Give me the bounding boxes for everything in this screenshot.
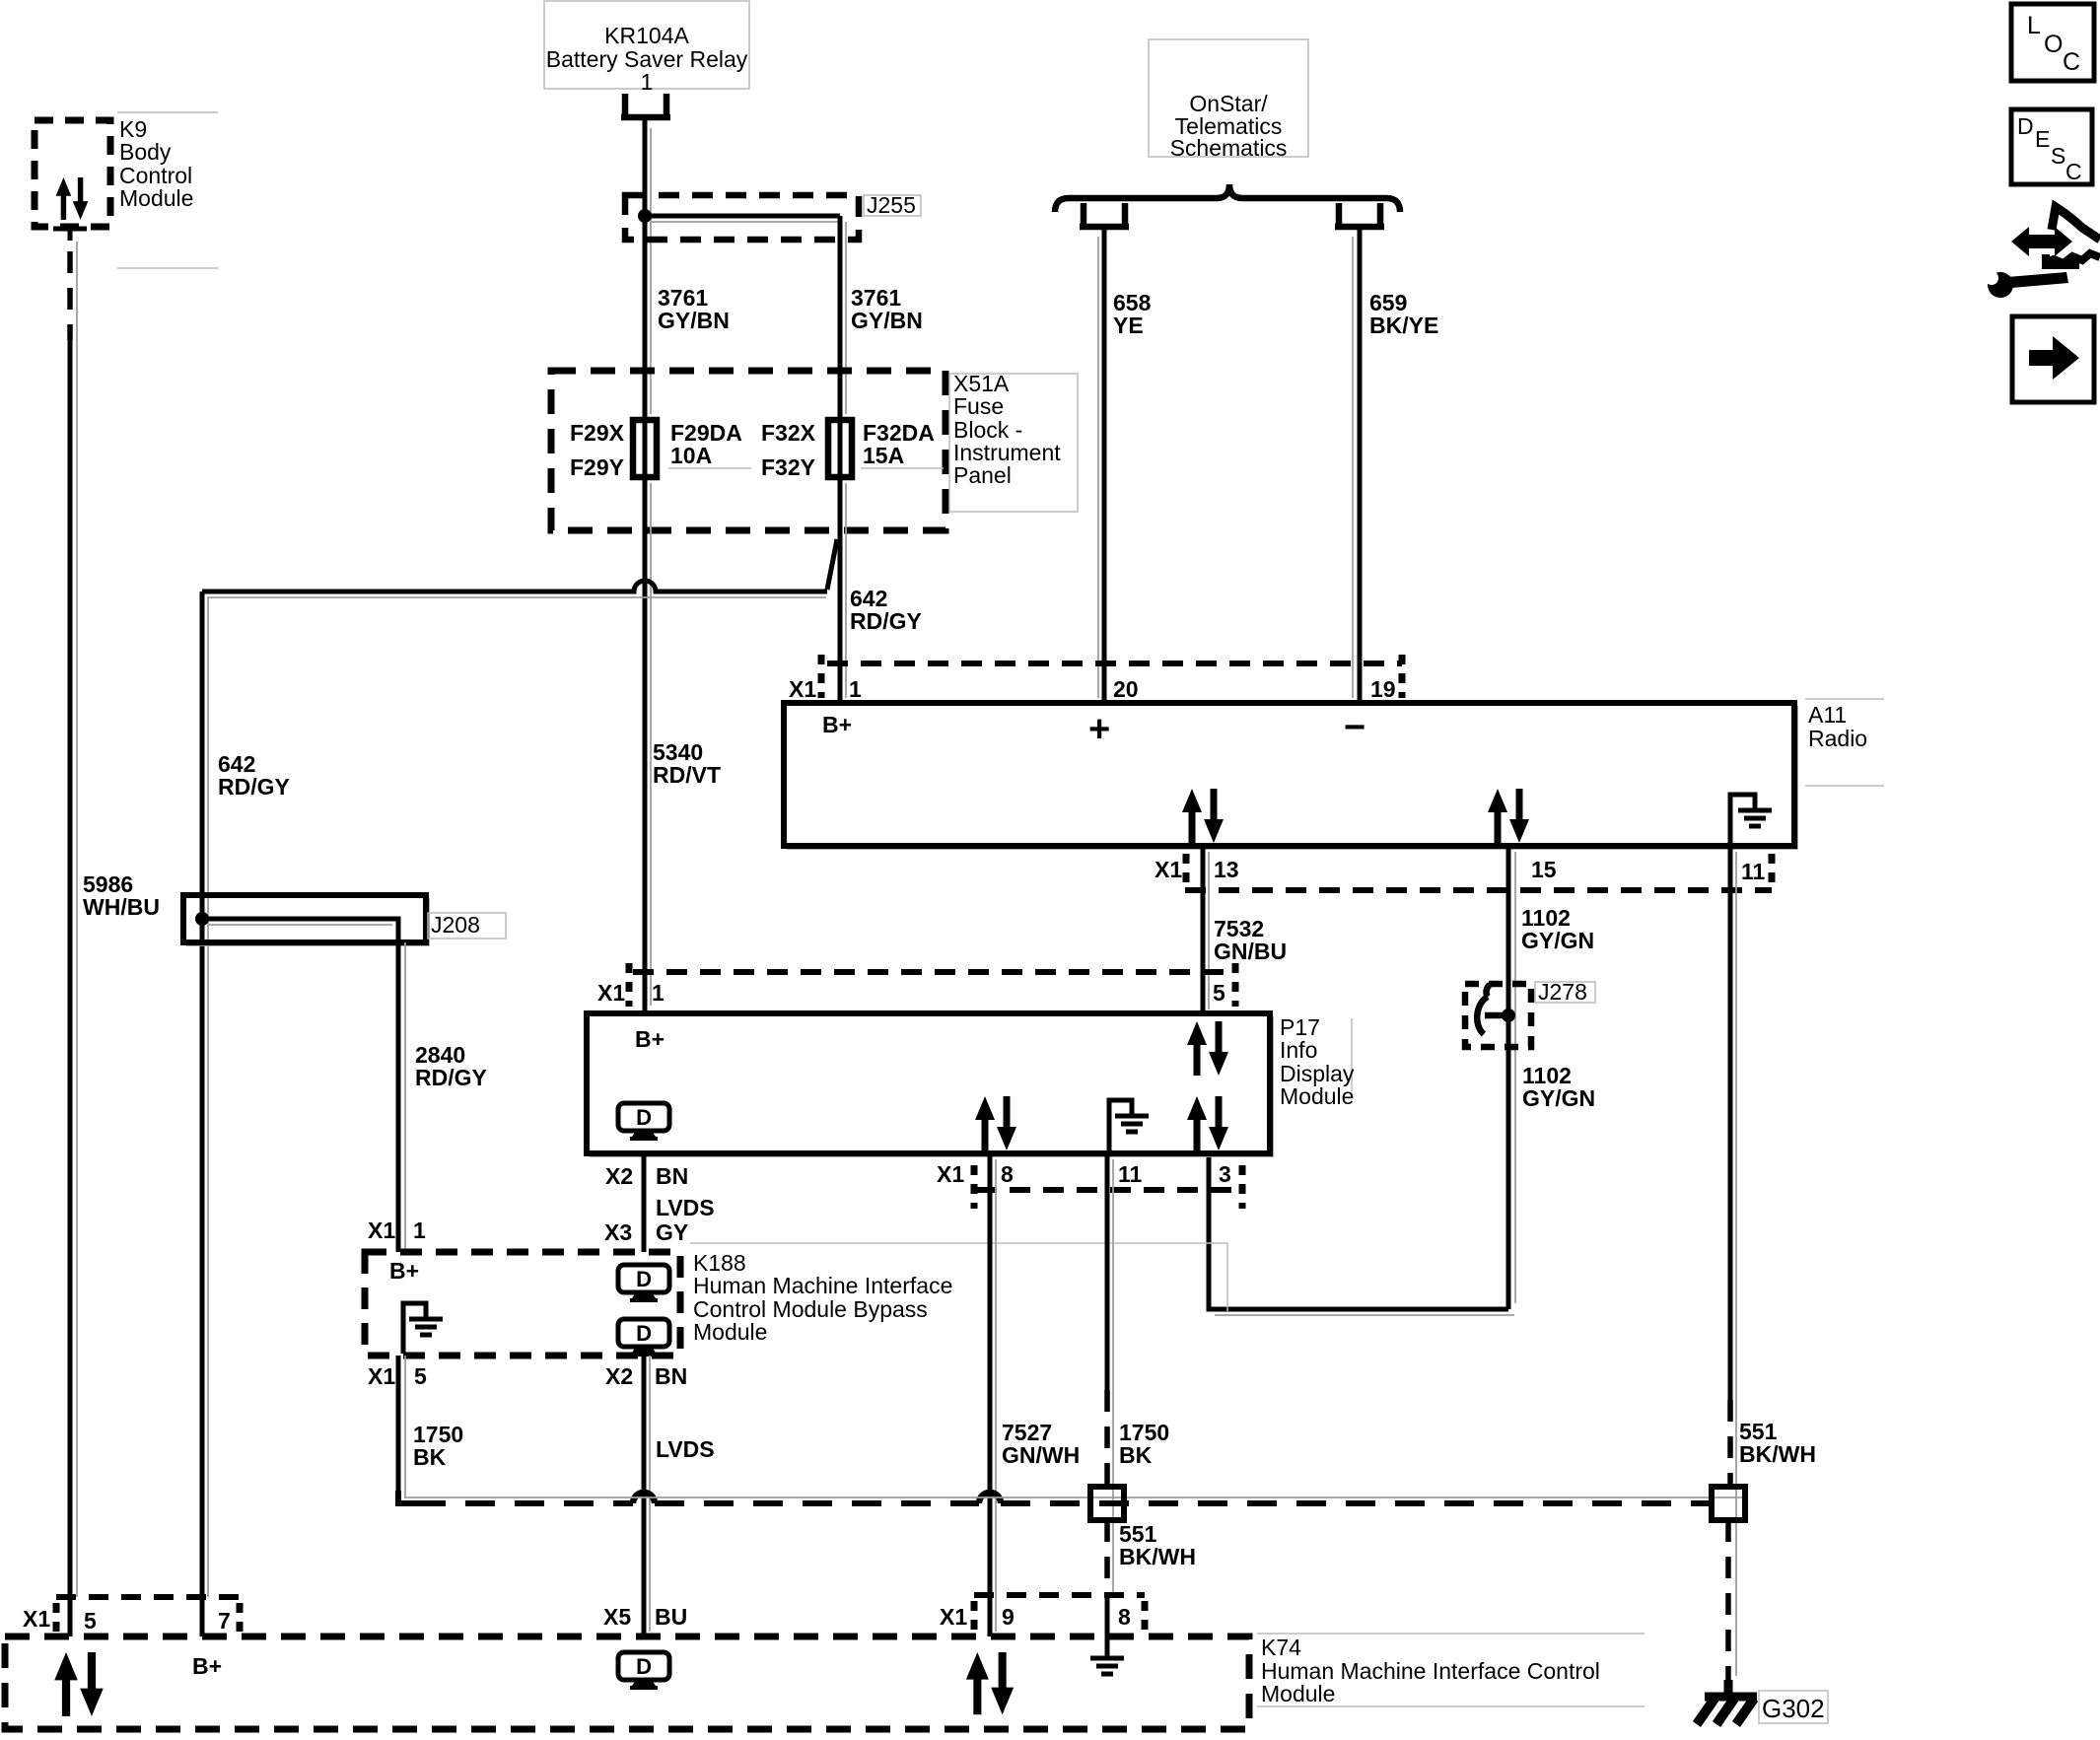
wire 7527 GN/WH from P17 pin 8 to K74 pin 9 — [988, 1153, 993, 1636]
svg-text:GY/GN: GY/GN — [1521, 928, 1594, 953]
svg-text:5: 5 — [84, 1608, 97, 1634]
svg-text:X2: X2 — [605, 1363, 633, 1389]
svg-text:LVDS: LVDS — [656, 1436, 715, 1462]
wire 1750 BK from K188 X1 pin 5 down — [396, 1356, 401, 1503]
svg-text:WH/BU: WH/BU — [83, 894, 160, 920]
svg-text:8: 8 — [1001, 1161, 1014, 1187]
svg-text:GY/BN: GY/BN — [851, 308, 923, 333]
svg-text:RD/VT: RD/VT — [653, 762, 721, 788]
svg-text:GN/WH: GN/WH — [1002, 1442, 1080, 1468]
svg-text:L: L — [2027, 12, 2041, 39]
svg-text:9: 9 — [1002, 1604, 1015, 1630]
svg-text:1: 1 — [413, 1218, 426, 1243]
svg-text:Body: Body — [119, 139, 172, 165]
svg-text:B+: B+ — [389, 1258, 419, 1284]
fuse F32 wire through — [838, 420, 843, 477]
K188 internal D display icon (bottom) — [618, 1319, 669, 1357]
svg-text:X1: X1 — [940, 1604, 967, 1630]
KR104A Battery Saver Relay label callout box — [544, 1, 749, 89]
wire 551 BK/WH dashed part to splice — [1727, 1400, 1733, 1487]
relay KR104A pin 1 connector fork — [621, 94, 670, 117]
svg-text:BN: BN — [656, 1163, 688, 1189]
svg-text:Panel: Panel — [953, 462, 1012, 488]
svg-text:11: 11 — [1118, 1161, 1143, 1187]
svg-text:7: 7 — [218, 1608, 231, 1634]
wire 551 BK/WH dashed from splice down to K74 pin 8 — [1104, 1520, 1110, 1597]
svg-text:LVDS: LVDS — [656, 1195, 715, 1220]
svg-text:C: C — [2065, 159, 2082, 184]
splice box on ground bus (right) — [1712, 1487, 1745, 1520]
svg-text:X1: X1 — [597, 980, 625, 1006]
connector mark right of pin 5 — [1232, 963, 1239, 1007]
P17 label callout line — [1351, 1018, 1353, 1091]
svg-text:K74: K74 — [1261, 1635, 1301, 1660]
icon LOC box — [2011, 4, 2094, 81]
splice J208 (solid box) — [183, 895, 426, 942]
radio internal up/down arrows above pin 13 — [1182, 789, 1224, 843]
svg-text:Radio: Radio — [1808, 726, 1867, 751]
connector mark left of pin 13 — [1183, 854, 1190, 885]
junction dot in J208 — [195, 912, 209, 926]
junction dot in J255 — [638, 209, 652, 223]
svg-text:−: − — [1344, 707, 1365, 748]
connector mark right of pin 11 — [1769, 854, 1776, 885]
wire 659 BK/YE down to radio pin 19 — [1358, 227, 1363, 703]
connector mark right of pin 8 — [1142, 1601, 1149, 1631]
radio bottom connector X1 dashed row — [1185, 887, 1772, 893]
svg-text:F32X: F32X — [761, 420, 816, 446]
K74 connector X1 (pins 5,7) dotted row — [56, 1594, 240, 1600]
fuse F29DA 10A body — [633, 420, 657, 477]
svg-text:BU: BU — [655, 1604, 687, 1630]
module P17 box shadow — [590, 1016, 1273, 1156]
svg-text:5: 5 — [1213, 980, 1225, 1006]
svg-text:BK/YE: BK/YE — [1369, 313, 1438, 338]
svg-text:8: 8 — [1118, 1604, 1131, 1630]
connector mark right of pin 19 — [1399, 655, 1406, 698]
svg-text:X1: X1 — [368, 1218, 395, 1243]
wire 642 diagonal jog to horizontal run — [827, 539, 837, 590]
svg-text:+: + — [1088, 709, 1110, 750]
K188 label callout line — [690, 1242, 1227, 1244]
K188 internal D display icon (top) — [618, 1265, 669, 1302]
splice J255 (dashed box) — [625, 195, 859, 240]
svg-text:YE: YE — [1113, 313, 1144, 338]
svg-text:S: S — [2051, 143, 2065, 169]
wire 642 RD/GY from fuse F32 down to radio pin 1 — [838, 477, 843, 703]
wire 5986 dashed segment below K9 — [67, 251, 73, 340]
svg-text:5: 5 — [414, 1363, 427, 1389]
OnStar right connector fork — [1335, 203, 1384, 227]
connector mark left of pin 1 — [626, 963, 633, 1007]
module K74 (dashed box) — [5, 1636, 1249, 1729]
svg-text:X1: X1 — [1155, 857, 1182, 882]
svg-text:Module: Module — [1280, 1083, 1354, 1109]
connector mark left of pin 9 — [971, 1601, 978, 1631]
wire 642 RD/GY vertical down to K74 pin 7 — [200, 592, 205, 1636]
svg-text:B+: B+ — [635, 1026, 665, 1052]
J208 label — [428, 913, 506, 939]
K74 internal D display icon at X5 — [618, 1652, 669, 1690]
svg-text:3: 3 — [1219, 1161, 1231, 1187]
svg-text:D: D — [2017, 113, 2034, 139]
svg-text:A11: A11 — [1808, 702, 1847, 728]
P17 internal up/down arrows above pin 3 — [1187, 1096, 1228, 1150]
svg-text:X1: X1 — [23, 1606, 50, 1632]
module A11 Radio (solid box) — [784, 703, 1794, 846]
svg-text:J278: J278 — [1538, 979, 1587, 1005]
icon DESC box — [2011, 109, 2092, 184]
svg-text:E: E — [2035, 126, 2050, 152]
wire J255 branch to right — [645, 214, 840, 219]
J278 label — [1535, 982, 1595, 1003]
svg-text:GN/BU: GN/BU — [1214, 939, 1287, 964]
connector mark left of pin 8 — [971, 1165, 978, 1209]
fuse F29 wire through — [643, 420, 648, 477]
module K188 (dashed box) — [365, 1252, 680, 1356]
wire 642 RD/GY horizontal run with hop over 5340 — [202, 581, 827, 592]
connector mark left of pin 5 — [53, 1603, 60, 1633]
svg-text:GY: GY — [656, 1219, 688, 1245]
icon arrow box — [2012, 316, 2094, 402]
fuse block X51A (dashed box) — [551, 371, 945, 530]
svg-text:F32Y: F32Y — [761, 454, 815, 480]
svg-text:BK: BK — [413, 1444, 447, 1470]
svg-text:F29Y: F29Y — [570, 454, 624, 480]
splice J208 box shadow — [186, 898, 429, 945]
wire LVDS from K188 X2 down to K74 X5 — [642, 1356, 647, 1636]
ground bus dashed horizontal run with hops over LVDS and 7527 — [398, 1491, 416, 1503]
wire 5986 from K9 pin stub — [53, 227, 87, 232]
K9 internal up/down data arrows — [56, 177, 89, 220]
svg-text:15A: 15A — [863, 443, 904, 468]
svg-text:RD/GY: RD/GY — [415, 1065, 487, 1090]
OnStar brace — [1055, 184, 1400, 212]
svg-text:C: C — [2063, 48, 2080, 76]
connector mark left of pin 1 — [818, 655, 825, 698]
svg-text:BK: BK — [1119, 1442, 1153, 1468]
svg-text:X2: X2 — [605, 1163, 633, 1189]
OnStar/Telematics Schematics label callout box — [1149, 39, 1308, 157]
wire 551 BK/WH dashed from splice down to G302 — [1725, 1520, 1731, 1682]
svg-text:RD/GY: RD/GY — [850, 608, 922, 634]
svg-text:11: 11 — [1741, 859, 1766, 884]
wire 1750 BK from P17 pin 11 (solid part) — [1105, 1153, 1110, 1390]
svg-text:BK/WH: BK/WH — [1739, 1441, 1816, 1467]
P17 bottom connector X1 dashed row — [976, 1187, 1242, 1193]
svg-text:1: 1 — [652, 980, 665, 1006]
wire J208 branch to right and down — [202, 919, 398, 942]
svg-text:Fuse: Fuse — [953, 393, 1004, 419]
wire 1750 BK dashed part to splice — [1104, 1390, 1110, 1487]
svg-text:Human Machine Interface: Human Machine Interface — [693, 1273, 952, 1298]
svg-text:RD/GY: RD/GY — [218, 774, 290, 800]
P17 internal ground symbol at pin 11 — [1109, 1100, 1132, 1151]
K74 internal up/down arrows at pin 9 — [966, 1652, 1014, 1714]
OnStar left connector fork — [1080, 203, 1129, 227]
A11 Radio label callout lines — [1805, 698, 1884, 700]
svg-text:Module: Module — [1261, 1681, 1335, 1706]
chassis ground G302 — [1705, 1680, 1757, 1697]
splice J278 (dashed box) — [1465, 984, 1531, 1047]
K74 internal ground symbol at pin 8 — [1105, 1597, 1110, 1656]
P17 top connector X1 dashed row — [633, 969, 1235, 975]
svg-text:X1: X1 — [937, 1161, 964, 1187]
svg-text:20: 20 — [1113, 676, 1139, 702]
wire 658 YE down to radio pin 20 — [1102, 227, 1107, 703]
svg-text:1: 1 — [641, 69, 654, 95]
icon vehicle-connector (double arrow, car outline, wrench) — [1985, 207, 2100, 298]
module K9 (dashed box) — [35, 120, 110, 227]
svg-text:BK/WH: BK/WH — [1119, 1544, 1196, 1569]
wire 2840 RD/GY from J208 to K188 X1 pin 1 — [396, 919, 401, 1252]
K74 label callout lines — [1257, 1633, 1645, 1635]
fuse F32DA 15A body — [828, 420, 852, 477]
wire 1102 corner run to P17 pin 3 — [1209, 1153, 1508, 1309]
svg-text:10A: 10A — [670, 443, 712, 468]
svg-text:Module: Module — [119, 185, 193, 211]
wire 7532 GN/BU from radio pin 13 to P17 pin 5 — [1201, 846, 1206, 1013]
wire LVDS X2 BN from P17 to K188 — [642, 1153, 647, 1252]
P17 internal up/down arrows below pin 5 — [1187, 1021, 1228, 1076]
K74 connector X1 (pins 9,8) dotted row — [974, 1592, 1145, 1598]
svg-text:X1: X1 — [368, 1363, 395, 1389]
svg-text:J208: J208 — [431, 912, 480, 938]
wire 5986 WH/BU vertical to K74 X1 pin 5 — [68, 333, 73, 1636]
radio internal up/down arrows above pin 15 — [1488, 789, 1529, 843]
svg-text:BN: BN — [655, 1363, 687, 1389]
connector mark right of pin 7 — [237, 1603, 244, 1633]
connector mark right of pin 3 — [1239, 1165, 1246, 1209]
svg-text:Schematics: Schematics — [1170, 135, 1288, 161]
P17 internal up/down arrows above pin 8 — [975, 1096, 1016, 1150]
K188 internal ground symbol — [403, 1303, 426, 1354]
P17 internal D display icon — [618, 1103, 669, 1141]
K74 internal up/down arrows at pin 5 — [54, 1652, 104, 1716]
svg-text:Info: Info — [1280, 1037, 1317, 1063]
svg-text:G302: G302 — [1762, 1694, 1825, 1723]
module P17 Info Display Module (solid box) — [587, 1013, 1270, 1153]
radio internal ground symbol at pin 11 — [1730, 795, 1755, 844]
splice box on ground bus (left) — [1090, 1487, 1124, 1520]
wire from relay pin 1 to J255 — [643, 117, 648, 420]
svg-text:KR104A: KR104A — [604, 23, 689, 48]
J255 label — [864, 195, 921, 216]
svg-text:GY/GN: GY/GN — [1522, 1085, 1595, 1111]
wire 5340 RD/VT from fuse F29 down to P17 pin 1 — [643, 477, 648, 1013]
svg-text:B+: B+ — [192, 1653, 222, 1679]
svg-text:Module: Module — [693, 1319, 767, 1345]
svg-text:1: 1 — [849, 676, 862, 702]
wire 3761 GY/BN right branch down to fuse F32 — [838, 216, 843, 420]
wire 1102 GY/GN from radio pin 15 to J278 — [1506, 846, 1511, 1309]
K9 Body Control Module label callout lines — [117, 111, 218, 113]
svg-text:X3: X3 — [604, 1219, 632, 1245]
svg-text:X1: X1 — [789, 676, 816, 702]
svg-text:F29X: F29X — [570, 420, 625, 446]
J278 junction dot and clip symbol — [1502, 1009, 1515, 1022]
svg-text:X5: X5 — [603, 1604, 631, 1630]
svg-text:J255: J255 — [867, 192, 916, 218]
svg-text:GY/BN: GY/BN — [658, 308, 730, 333]
svg-text:19: 19 — [1370, 676, 1396, 702]
G302 label — [1759, 1691, 1828, 1723]
module A11 Radio box shadow — [787, 706, 1797, 849]
svg-text:13: 13 — [1214, 857, 1239, 882]
radio top connector X1 dashed row — [827, 661, 1402, 666]
X51A label callout box — [949, 374, 1078, 512]
svg-text:B+: B+ — [822, 712, 852, 737]
svg-text:15: 15 — [1531, 857, 1557, 882]
wire 551 BK/WH from radio pin 11 (solid part) — [1728, 846, 1733, 1400]
svg-text:O: O — [2044, 31, 2063, 58]
